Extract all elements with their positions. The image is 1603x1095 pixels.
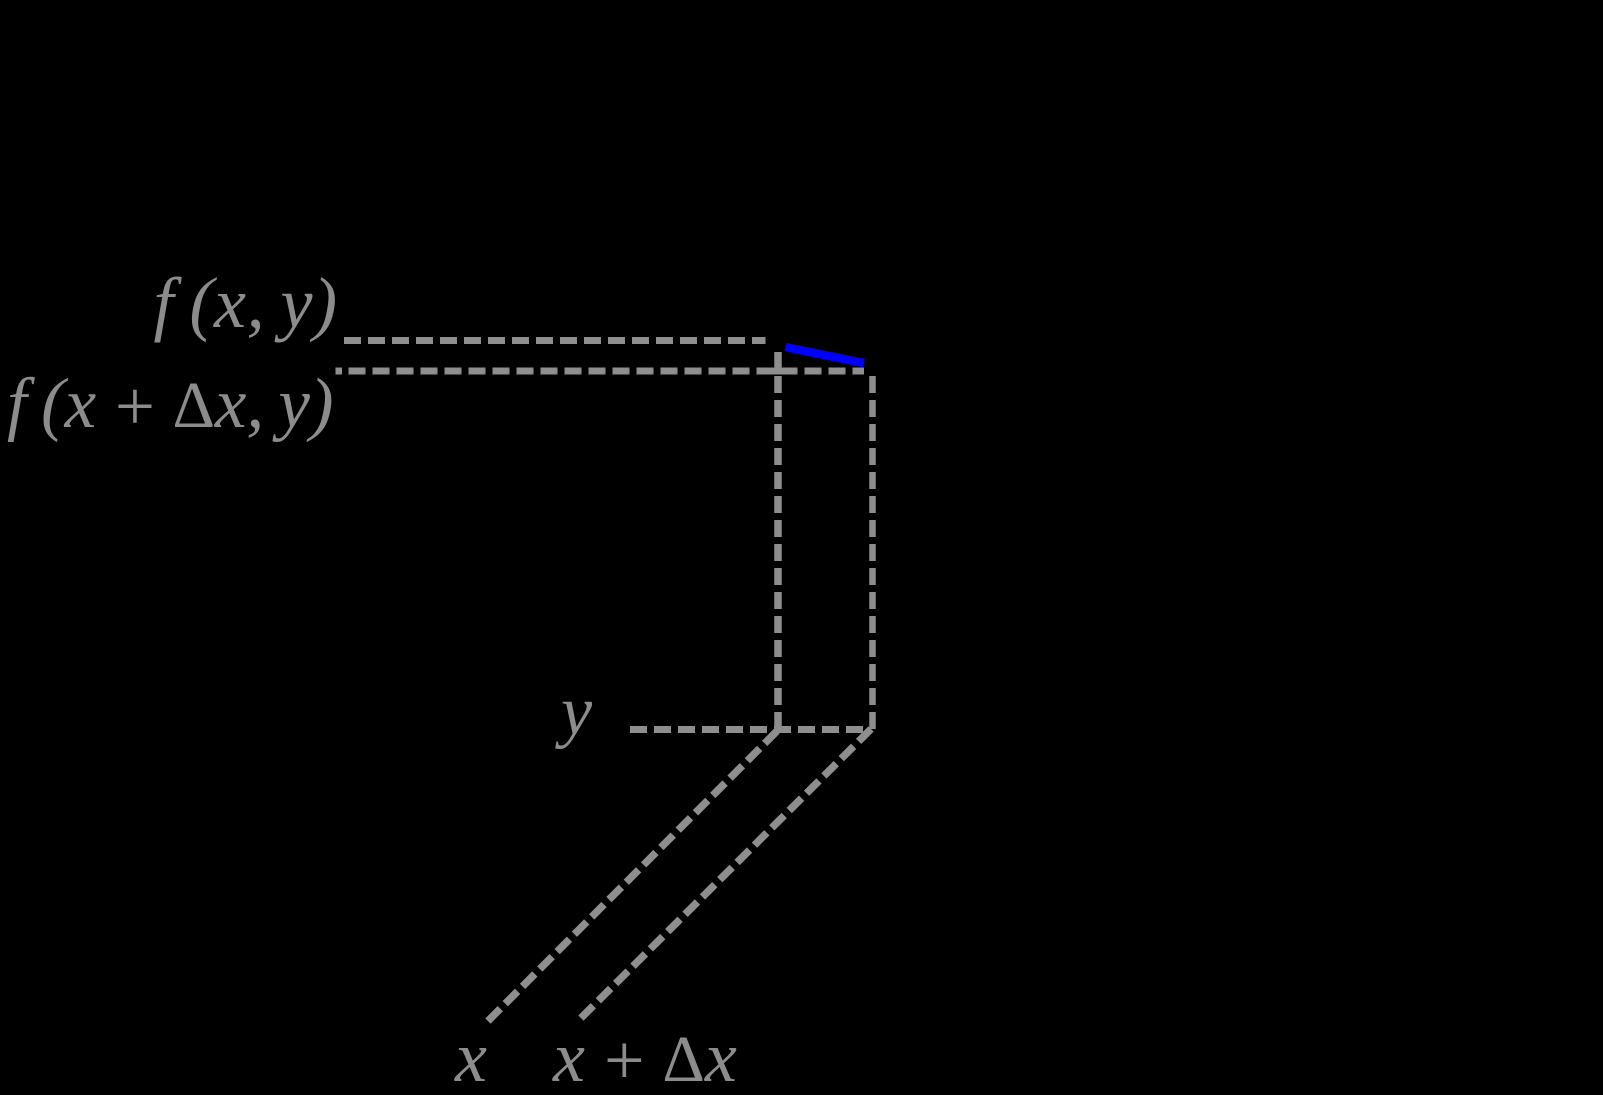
wire: dashed level line f(x+dx,y)	[349, 368, 865, 375]
blue secant segment	[786, 347, 865, 363]
wire: dashed y level line	[630, 726, 870, 733]
svg-text:x + Δx: x + Δx	[552, 1017, 737, 1095]
svg-text:y: y	[555, 673, 593, 750]
wire: diagonal dashed line to x	[484, 731, 777, 1025]
svg-text:x: x	[454, 1017, 487, 1095]
svg-text:f (x, y): f (x, y)	[154, 263, 338, 343]
wire: diagonal dashed line to x+dx	[577, 729, 871, 1022]
wire: dashed level line f(x,y)	[344, 337, 766, 344]
junction fill at x crossing	[774, 368, 782, 375]
wire: dashed level line f(x+dx,y), start nub	[336, 368, 343, 375]
svg-text:f (x + Δx, y): f (x + Δx, y)	[7, 365, 334, 446]
wire: vertical dashed line at x	[774, 352, 782, 730]
wire: vertical dashed line at x+dx	[869, 376, 876, 729]
